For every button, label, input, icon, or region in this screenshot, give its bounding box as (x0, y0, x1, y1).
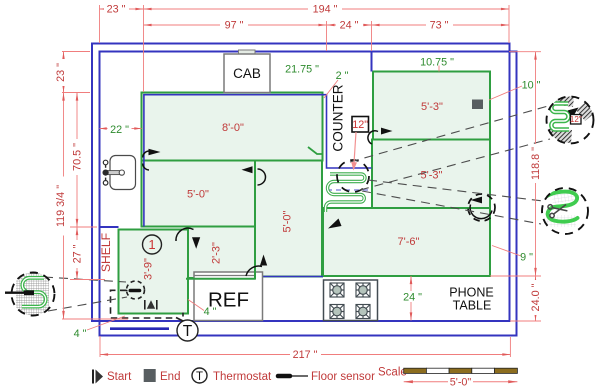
zone number 1 circle (143, 235, 162, 254)
svg-text:4 ": 4 " (204, 306, 217, 318)
counter heating coil (326, 174, 365, 212)
cable arrow 7'6 room top right with callout circle (471, 197, 483, 204)
legend end symbol (144, 369, 156, 382)
svg-text:COUNTER: COUNTER (331, 84, 346, 151)
alcove shelf bar (110, 327, 169, 330)
cabinet CAB (224, 54, 270, 93)
svg-text:5'-0": 5'-0" (450, 376, 472, 388)
right extension lines (509, 51, 541, 53)
detail circle top right (counter coil zoom) (548, 93, 597, 143)
svg-text:Scale: Scale (378, 367, 407, 379)
svg-text:70.5 ": 70.5 " (72, 143, 84, 171)
svg-text:24.0 ": 24.0 " (530, 283, 542, 311)
sensor wire to thermostat (176, 318, 184, 322)
dashed connector sensor to bottom-left detail (44, 277, 126, 282)
detail circle bottom left (floor sensor zoom) (16, 273, 49, 316)
coil end arrow 7'6 room (328, 219, 342, 229)
stove (324, 280, 378, 321)
svg-text:12": 12" (570, 115, 582, 124)
svg-text:End: End (160, 371, 180, 383)
cable arrow room1 top (192, 237, 200, 249)
wall outer rectangle A (92, 44, 510, 322)
svg-text:Thermostat: Thermostat (213, 371, 272, 383)
svg-text:2 ": 2 " (336, 70, 349, 82)
svg-text:PHONE: PHONE (449, 286, 493, 300)
dim line 27" (76, 227, 78, 280)
wall stub right of counter (371, 52, 373, 72)
dim line 118.8 (535, 52, 537, 276)
dim line 97" (144, 24, 327, 26)
svg-text:217 ": 217 " (293, 349, 318, 361)
svg-text:118.8 ": 118.8 " (530, 147, 542, 180)
svg-text:Start: Start (107, 371, 132, 383)
svg-text:TABLE: TABLE (453, 299, 492, 313)
room 1 (3'-9") (119, 230, 189, 314)
start marker in room 1 (145, 300, 157, 310)
svg-text:Floor sensor: Floor sensor (311, 371, 375, 383)
svg-text:SHELF: SHELF (99, 233, 113, 272)
svg-text:22 ": 22 " (110, 124, 129, 136)
dim line 194" (144, 8, 510, 10)
blue mat boundary polyline (144, 95, 372, 227)
dim line 73" (372, 24, 510, 26)
dimension texts red (55, 4, 542, 362)
leader 10" (489, 86, 522, 100)
cable arrow 8' room (149, 149, 161, 155)
svg-text:194 ": 194 " (313, 4, 338, 16)
sink (110, 156, 136, 190)
svg-text:21.75 ": 21.75 " (285, 64, 319, 76)
dashed connector plan to mid-right detail (368, 180, 543, 201)
floor sensor circle (127, 281, 145, 299)
dim line 70.5" (76, 93, 78, 228)
svg-text:24 ": 24 " (403, 292, 422, 304)
room 8'-0" (142, 93, 323, 161)
bottom extension lines (99, 336, 101, 357)
dim line 23" left (63, 52, 65, 93)
svg-text:4 ": 4 " (74, 328, 87, 340)
svg-text:23 ": 23 " (107, 4, 126, 16)
room 2'-3" (188, 227, 255, 279)
room 5'-0" (142, 161, 256, 227)
refrigerator REF (194, 272, 263, 321)
dashed sensor area rectangle (111, 290, 177, 318)
svg-text:23 ": 23 " (55, 63, 67, 82)
svg-text:3'-9": 3'-9" (143, 258, 155, 280)
wall outer rectangle B (100, 52, 517, 336)
svg-text:8'-0": 8'-0" (222, 122, 244, 134)
room 5'-3" middle right (372, 140, 490, 209)
scale bar (404, 368, 518, 373)
svg-text:73 ": 73 " (430, 20, 449, 32)
svg-text:5'-0": 5'-0" (187, 189, 209, 201)
detail circle mid right (cut mat zoom) (546, 188, 579, 227)
green offset labels (74, 57, 541, 341)
dim line 24" stove (410, 276, 412, 321)
svg-text:9 ": 9 " (520, 252, 533, 264)
leader 4" room1 (188, 300, 204, 311)
svg-text:CAB: CAB (233, 66, 261, 81)
wall stub near SHELF (100, 226, 119, 228)
extension lines top (99, 5, 101, 43)
svg-text:T: T (196, 371, 203, 383)
svg-text:5'-3": 5'-3" (421, 170, 443, 182)
dashed connector plan to top-right detail (350, 106, 548, 162)
svg-text:10 ": 10 " (522, 80, 541, 92)
cable arrow REF corner (260, 255, 267, 266)
svg-text:10.75 ": 10.75 " (420, 57, 454, 69)
cable arrow mid-right room (381, 128, 393, 135)
room 5'-3" top right (373, 72, 490, 140)
counter heating mat dashed edge (327, 189, 368, 191)
room 7'-6" (323, 208, 490, 276)
green edge over REF (186, 278, 256, 280)
thermostat T on plan (177, 320, 198, 341)
svg-text:97 ": 97 " (225, 20, 244, 32)
counter front line (263, 276, 324, 278)
svg-text:1: 1 (148, 237, 155, 252)
leader 9" (492, 246, 521, 257)
cable arrow 5' room left (242, 166, 253, 173)
dim line 217" (100, 354, 510, 356)
leader 4" dashed rect (87, 316, 125, 330)
red arrowheads (62, 8, 537, 356)
legend floor sensor (278, 374, 290, 379)
12" label box with arrow (352, 117, 369, 133)
scale dimension (404, 381, 518, 383)
corridor 5'-0" (255, 161, 322, 277)
svg-text:27 ": 27 " (72, 244, 84, 263)
svg-text:7'-6": 7'-6" (398, 236, 420, 248)
dim line 24" top (316, 24, 382, 26)
svg-text:2'-3": 2'-3" (211, 242, 223, 264)
svg-text:T: T (183, 323, 193, 340)
dim line 23" top (100, 8, 144, 10)
legend thermostat (192, 368, 207, 383)
dim line 22" (100, 128, 142, 130)
leader 2" (324, 80, 338, 98)
svg-text:119 3/4 ": 119 3/4 " (55, 185, 67, 227)
dim line 24.0" (535, 276, 537, 321)
legend start symbol (93, 370, 103, 384)
CAB tab (239, 50, 256, 55)
svg-text:5'-3": 5'-3" (421, 101, 443, 113)
detail callout circle on counter coil (337, 160, 369, 192)
left extension lines (62, 51, 90, 53)
dim line 119 3/4" (63, 93, 65, 320)
svg-text:12": 12" (352, 119, 368, 131)
wire notch at 8' room corner (308, 147, 322, 154)
end marker square (472, 100, 483, 110)
svg-text:24 ": 24 " (340, 20, 359, 32)
svg-text:5'-0": 5'-0" (282, 210, 294, 232)
